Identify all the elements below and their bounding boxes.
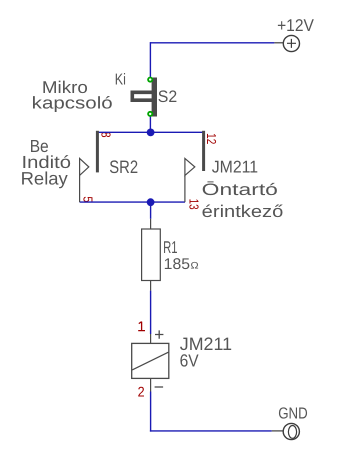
svg-text:12: 12 xyxy=(204,133,219,144)
wire S2 to top rail xyxy=(149,114,151,137)
pin node S2 top xyxy=(147,77,153,83)
wire coil to bottom corner xyxy=(150,392,152,432)
svg-text:SR2: SR2 xyxy=(109,157,138,177)
svg-text:Ω: Ω xyxy=(191,261,199,272)
wire junction to R1 xyxy=(150,202,152,219)
wire bottom horizontal to GND xyxy=(150,430,272,432)
junction bottom xyxy=(147,198,155,206)
relay contact SR2 xyxy=(80,131,99,202)
switch S2 xyxy=(132,78,157,117)
relay coil JM211 xyxy=(132,330,169,391)
svg-text:185: 185 xyxy=(164,256,190,273)
junction top xyxy=(147,129,155,137)
svg-text:kapcsoló: kapcsoló xyxy=(32,93,113,112)
svg-text:S2: S2 xyxy=(158,87,177,106)
svg-text:+12V: +12V xyxy=(277,16,314,35)
svg-text:6V: 6V xyxy=(180,351,199,371)
svg-text:R1: R1 xyxy=(163,238,177,257)
svg-text:JM211: JM211 xyxy=(212,158,258,177)
wire top horizontal to +12V xyxy=(150,42,274,44)
wire top rail xyxy=(97,131,203,133)
svg-text:13: 13 xyxy=(187,199,202,210)
wire down to switch S2 xyxy=(149,42,151,77)
ground terminal GND xyxy=(272,423,300,439)
resistor R1 xyxy=(142,219,161,291)
svg-text:2: 2 xyxy=(138,384,145,400)
wire R1 to coil xyxy=(150,291,152,334)
wire bottom rail xyxy=(80,201,185,203)
power terminal +12V xyxy=(274,35,299,51)
svg-text:érintkező: érintkező xyxy=(202,202,284,221)
pin 1 xyxy=(138,322,145,331)
pin node S2 bottom xyxy=(147,111,153,117)
relay contact JM211 xyxy=(185,131,205,202)
svg-text:Ki: Ki xyxy=(115,71,126,88)
svg-text:Ōntartó: Ōntartó xyxy=(202,181,278,199)
svg-text:GND: GND xyxy=(278,406,308,423)
svg-text:Relay: Relay xyxy=(21,168,68,188)
